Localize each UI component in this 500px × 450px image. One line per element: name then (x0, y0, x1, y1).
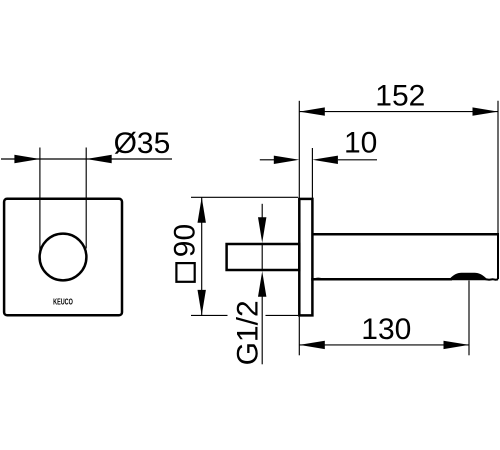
side view: spout top line (312, 233, 499, 236)
svg-text:152: 152 (375, 79, 425, 112)
dim 90: top arrowhead (198, 197, 206, 223)
dim Ø35: right extension line (85, 148, 87, 249)
dim 130: left extension line (298, 317, 300, 356)
side view: spout bottom line (311, 278, 452, 281)
stub diameter dim: line through stub (261, 243, 263, 271)
dim 90: square symbol (176, 263, 194, 282)
dim 10: left arrowhead (274, 156, 300, 164)
svg-text:KEUCO: KEUCO (53, 299, 73, 307)
dim 10: right tail line (338, 159, 377, 161)
stub diameter dim: upper leader (down arrow) (261, 204, 263, 219)
dim Ø35: dimension line (1, 158, 172, 160)
svg-text:Ø35: Ø35 (114, 127, 171, 160)
svg-text:90: 90 (168, 224, 201, 257)
dim 152: left extension line (wall line above plate) (298, 101, 300, 198)
dim 152: right arrowhead (473, 107, 499, 115)
dim 10: extension line (plate face above) (311, 148, 313, 198)
dim 152: dimension line (299, 111, 498, 113)
dim 152: right extension line (497, 101, 499, 234)
dim 130: dimension line (299, 344, 469, 346)
svg-text:130: 130 (361, 313, 411, 346)
dim 152: left arrowhead (299, 107, 325, 115)
front view: square wall plate (4, 199, 122, 315)
front view: circle (spout base) (40, 234, 87, 281)
side view: aerator bump under spout tip (450, 273, 487, 281)
dim Ø35: left arrowhead (14, 155, 40, 163)
side view: bottom line after bump (wavy tip) (486, 278, 498, 281)
dim 90: bottom arrowhead (198, 290, 206, 316)
side view: spout tip edge (497, 234, 499, 279)
dim 90: top extension line (191, 196, 298, 198)
dim Ø35: left extension line (39, 148, 41, 251)
svg-text:10: 10 (344, 127, 377, 160)
stub diameter dim: lower leader (up arrow) (258, 271, 266, 297)
dim 10: right arrowhead (312, 156, 338, 164)
side view: small joint bump on spout underside near plate (314, 279, 324, 280)
dim 10: left tail line (260, 159, 275, 161)
dim 130: right arrowhead (444, 341, 470, 349)
svg-text:G1/2: G1/2 (232, 300, 265, 365)
dim 130: left arrowhead (299, 341, 325, 349)
dim 130: right extension line (468, 281, 470, 356)
dim 90: dimension line (201, 197, 203, 315)
side view: G1/2 inlet stub (227, 244, 300, 270)
dim Ø35: right arrowhead (86, 155, 112, 163)
dim 90: bottom extension line (broken by G1/2 text) (191, 314, 228, 316)
side view: wall plate (edge-on) (299, 199, 312, 316)
